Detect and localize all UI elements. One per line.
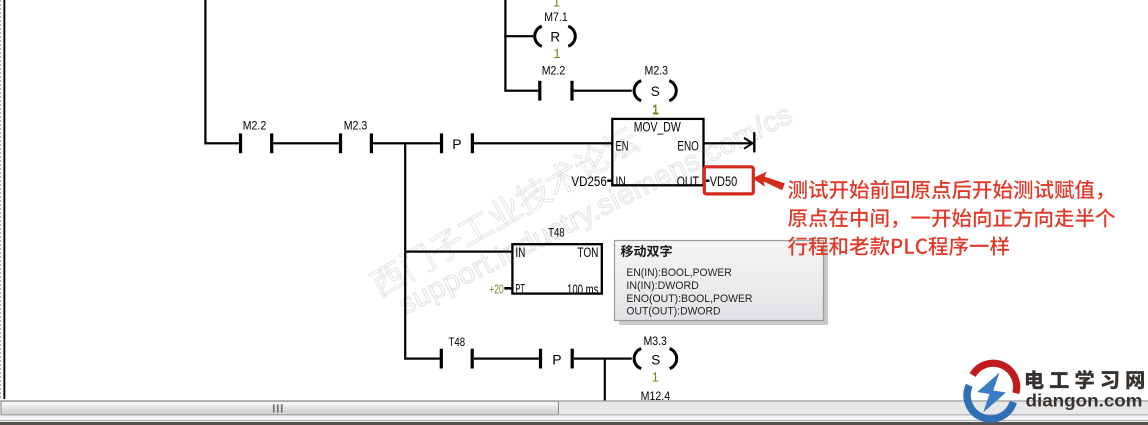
svg-text:TON: TON bbox=[577, 245, 598, 260]
svg-text:1: 1 bbox=[553, 46, 560, 61]
tick OUT-VD50 bbox=[705, 180, 710, 182]
red highlight box around VD50 bbox=[704, 167, 753, 194]
logo lightning bolt bbox=[977, 373, 1006, 413]
svg-text:1: 1 bbox=[652, 370, 659, 385]
wire to MOV_DW box bbox=[474, 142, 611, 144]
svg-text:VD256: VD256 bbox=[571, 174, 606, 189]
scrollbar bottom border bbox=[0, 414, 1148, 415]
dark bottom bar bbox=[0, 422, 1148, 425]
svg-text:1: 1 bbox=[652, 102, 659, 117]
svg-text:diangon.com: diangon.com bbox=[1026, 390, 1143, 410]
svg-text:ENO: ENO bbox=[677, 138, 699, 153]
svg-text:T48: T48 bbox=[449, 337, 466, 349]
coil S M3.3 bbox=[634, 349, 641, 369]
coil S M2.3 bbox=[634, 81, 641, 101]
svg-text:PT: PT bbox=[515, 282, 525, 297]
logo red arc bbox=[973, 363, 1017, 393]
svg-text:IN(IN):DWORD: IN(IN):DWORD bbox=[626, 280, 698, 292]
branch vertical wire bbox=[404, 142, 406, 360]
svg-text:1: 1 bbox=[553, 0, 560, 10]
svg-text:ENO(OUT):BOOL,POWER: ENO(OUT):BOOL,POWER bbox=[626, 293, 752, 305]
svg-text:R: R bbox=[550, 29, 560, 44]
red annotation line 1 bbox=[788, 180, 1102, 200]
svg-text:VD50: VD50 bbox=[710, 174, 738, 189]
contact P (positive edge) bbox=[440, 133, 443, 153]
logo blue arc bbox=[967, 385, 1013, 419]
wire contact to S coil bbox=[574, 90, 632, 92]
svg-text:OUT: OUT bbox=[677, 174, 699, 189]
arrow end bar bbox=[753, 132, 755, 152]
thumb grip bbox=[273, 404, 283, 412]
box MOV_DW bbox=[612, 119, 703, 185]
red annotation line 3 bbox=[788, 236, 1009, 255]
logo text 电工学习网 bbox=[1026, 370, 1144, 390]
svg-text:100 ms: 100 ms bbox=[567, 282, 599, 297]
wire bbox=[474, 358, 539, 360]
left power rail bbox=[3, 0, 5, 399]
scrollbar thumb bbox=[1, 401, 559, 414]
svg-text:+20: +20 bbox=[489, 283, 504, 297]
box TON T48 bbox=[512, 244, 601, 293]
ENO output wire bbox=[704, 142, 753, 144]
red arrow pointing to VD50 bbox=[753, 172, 785, 191]
watermark CJK line bbox=[368, 124, 642, 300]
wire bbox=[273, 142, 339, 144]
wire to R coil bbox=[505, 35, 533, 37]
wire with T junction bbox=[574, 358, 632, 360]
rail from network above (left) bbox=[204, 0, 206, 144]
branch down wire bbox=[604, 358, 606, 401]
svg-text:OUT(OUT):DWORD: OUT(OUT):DWORD bbox=[626, 306, 720, 318]
contact M2.3 bbox=[339, 133, 342, 153]
rung3 wire bbox=[405, 358, 440, 360]
svg-text:M2.2: M2.2 bbox=[243, 121, 267, 133]
tooltip title 移动双字 bbox=[621, 245, 672, 257]
coil R M7.1 bbox=[535, 26, 542, 46]
scrollbar top border bbox=[0, 400, 1148, 401]
open arrow head bbox=[744, 138, 753, 149]
tooltip shadow bbox=[619, 245, 828, 325]
svg-text:MOV_DW: MOV_DW bbox=[634, 120, 681, 135]
rail from network above bbox=[504, 0, 506, 37]
svg-text:S: S bbox=[651, 84, 660, 99]
svg-text:S: S bbox=[651, 352, 660, 367]
contact M2.2 (net1) bbox=[538, 81, 541, 101]
svg-text:EN(IN):BOOL,POWER: EN(IN):BOOL,POWER bbox=[626, 267, 731, 279]
main rung wire segments bbox=[205, 142, 239, 144]
rail segment to S rung bbox=[504, 35, 506, 92]
svg-text:M2.3: M2.3 bbox=[344, 121, 368, 133]
wire to M2.2 contact (net1) bbox=[505, 90, 538, 92]
svg-text:P: P bbox=[452, 136, 461, 152]
svg-text:IN: IN bbox=[616, 174, 626, 189]
page margin dotted line bbox=[0, 0, 2, 400]
tick VD256-IN bbox=[607, 180, 612, 182]
timer rung wire bbox=[405, 251, 511, 253]
contact T48 bbox=[440, 349, 443, 369]
svg-text:IN: IN bbox=[515, 245, 525, 260]
svg-text:M2.3: M2.3 bbox=[645, 65, 669, 77]
red annotation line 2 bbox=[788, 208, 1115, 228]
svg-text:M7.1: M7.1 bbox=[544, 12, 568, 24]
contact M2.2 bbox=[239, 133, 242, 153]
scrollbar track bbox=[0, 402, 1148, 415]
wire with branch junction bbox=[373, 142, 440, 144]
svg-text:T48: T48 bbox=[548, 228, 565, 240]
svg-text:M3.3: M3.3 bbox=[643, 336, 667, 348]
svg-text:P: P bbox=[552, 352, 561, 368]
status strip bbox=[0, 415, 1148, 420]
contact P (rung3) bbox=[539, 349, 542, 369]
svg-text:EN: EN bbox=[616, 138, 629, 153]
svg-text:M2.2: M2.2 bbox=[542, 65, 566, 77]
tooltip box bbox=[615, 241, 824, 321]
tick +20-PT bbox=[504, 287, 512, 290]
